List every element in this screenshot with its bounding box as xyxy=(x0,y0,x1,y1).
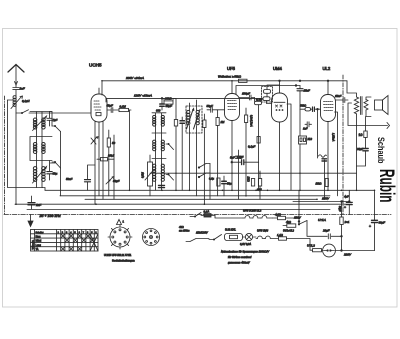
heater coil UCH5 xyxy=(253,216,261,218)
node 110V xyxy=(298,221,300,223)
wire oscillator leads xyxy=(152,113,166,191)
tuner coil L4b xyxy=(42,167,46,182)
svg-text:UF5 UM4: UF5 UM4 xyxy=(257,229,269,233)
svg-text:10kΩ: 10kΩ xyxy=(316,183,322,186)
resistor AGC left xyxy=(217,178,220,186)
resistor 410 heater 2 xyxy=(279,237,323,250)
svg-text:0,1µH: 0,1µH xyxy=(22,99,30,103)
svg-text:80µF: 80µF xyxy=(379,221,386,225)
tube socket UCH5 xyxy=(108,225,132,249)
output transformer secondary xyxy=(364,100,368,111)
potentiometer volume 0,5M xyxy=(145,155,155,196)
resistor oscillator grid xyxy=(174,116,177,190)
wire grid leak drop xyxy=(129,110,131,190)
svg-text:1MΩ: 1MΩ xyxy=(247,177,250,182)
resistor 30k screen feed xyxy=(162,98,176,116)
heater coil UF5 row2 xyxy=(256,236,264,238)
svg-text:Schaub: Schaub xyxy=(376,137,386,164)
wire mains to 80uF xyxy=(336,250,375,252)
svg-text:50µF: 50µF xyxy=(338,206,341,212)
wire UCH5 cathode drops xyxy=(95,121,103,204)
wire UL2 side pin xyxy=(335,112,338,196)
resistor UF5 screen xyxy=(245,108,248,196)
svg-text:UF5: UF5 xyxy=(227,66,236,71)
resistor M0,5 xyxy=(97,158,114,161)
resistor magic eye 1 xyxy=(264,90,271,94)
svg-text:UCH5: UCH5 xyxy=(89,63,102,68)
switch band mid S3a xyxy=(198,164,210,169)
svg-text:50nF: 50nF xyxy=(66,177,73,181)
terminal block Kl xyxy=(299,136,307,190)
wire 200V rail xyxy=(102,80,347,82)
main bus B2 xyxy=(60,195,330,197)
resistor AVC mid xyxy=(257,137,260,144)
tone squiggle xyxy=(318,153,327,199)
IF1 coil b xyxy=(194,110,201,130)
svg-text:25µF: 25µF xyxy=(356,147,363,151)
node UL2 top xyxy=(327,80,329,82)
resistor UL2 cathode xyxy=(325,179,328,187)
electrolytic 25uF secondary xyxy=(357,149,369,167)
svg-text:für Ströme maximal: für Ströme maximal xyxy=(228,255,252,259)
node AF xyxy=(317,108,319,110)
svg-text:6,3V 0,3A: 6,3V 0,3A xyxy=(240,243,251,246)
tube UL2 xyxy=(321,81,336,191)
svg-text:50µF: 50µF xyxy=(166,104,173,108)
resistor magic eye 2 xyxy=(263,97,270,101)
svg-text:1M: 1M xyxy=(221,120,226,124)
resistor 50k anode UF5 xyxy=(239,79,248,82)
svg-text:Wellenber. ≥ 50kΩ: Wellenber. ≥ 50kΩ xyxy=(218,75,242,79)
svg-text:Nahentnahme für Spannungen 10: Nahentnahme für Spannungen 1000Ω/V xyxy=(221,250,269,254)
tube UCH5 xyxy=(91,88,107,122)
svg-text:15nF: 15nF xyxy=(304,89,311,93)
oscillator coil L7b xyxy=(161,164,164,181)
wire antenna drop to bus xyxy=(15,113,17,204)
svg-text:UL2: UL2 xyxy=(323,66,331,71)
table X marks row3 xyxy=(65,238,94,242)
wire UCH5 anode to 200V rail xyxy=(101,81,103,95)
svg-text:0,1µF: 0,1µF xyxy=(237,156,244,159)
capacitor 4uF xyxy=(346,190,352,214)
capacitor 80uF xyxy=(372,190,378,250)
svg-text:50pF: 50pF xyxy=(207,104,214,108)
resistor 4k heater xyxy=(283,224,296,227)
wire row2 left end xyxy=(186,239,209,242)
ground arrow chassis xyxy=(28,215,33,227)
wire detector line xyxy=(232,161,259,163)
resistor 10 secondary xyxy=(364,117,367,149)
svg-text:UY1+UL2: UY1+UL2 xyxy=(283,230,295,233)
svg-text:220V: 220V xyxy=(343,253,352,257)
capacitor 15nF detector xyxy=(297,86,303,137)
wire trimmer column xyxy=(50,112,56,166)
capacitor C4 1nF at bus xyxy=(28,196,35,209)
svg-text:±0,3: ±0,3 xyxy=(257,188,262,191)
table X marks row2 xyxy=(61,234,90,238)
svg-text:+: + xyxy=(369,225,371,229)
resistor 50k AF xyxy=(305,108,311,111)
wire tuner to bus jog xyxy=(43,188,46,191)
resistor 410 heater 1 xyxy=(278,216,286,219)
capacitor 100pF coupling xyxy=(239,95,255,100)
svg-text:1nF: 1nF xyxy=(36,203,41,207)
svg-text:1nF: 1nF xyxy=(303,127,308,131)
svg-text:5nF: 5nF xyxy=(230,156,235,160)
wire primary drop xyxy=(356,114,358,190)
svg-text:2×1: 2×1 xyxy=(344,220,350,224)
tuner coil L3b xyxy=(42,142,46,153)
wire tuner leads xyxy=(30,112,52,188)
heater coil UM4 row2 xyxy=(264,236,278,238)
wire magic eye feed xyxy=(267,85,280,104)
heater coil UF5 xyxy=(243,216,253,218)
speaker xyxy=(375,96,389,115)
band switch S1a xyxy=(21,110,36,114)
dashed box magic eye resistors xyxy=(262,87,273,103)
resistor 1M grid leak xyxy=(119,108,131,111)
node 150V/4uF xyxy=(349,201,351,203)
table big X last col xyxy=(90,234,98,251)
svg-text:U.Sk EXL: U.Sk EXL xyxy=(225,229,236,232)
electrolytic 50uF AGC xyxy=(222,176,227,196)
tuner coil L4a xyxy=(33,167,37,182)
tuner coil L3a xyxy=(33,142,37,153)
svg-text:1,1Ω: 1,1Ω xyxy=(277,233,283,237)
oscillator coil L6b xyxy=(161,140,164,151)
svg-text:50µ: 50µ xyxy=(53,172,58,176)
wire heater line 1 xyxy=(215,215,299,218)
resistor 50k mixer xyxy=(107,130,110,196)
resistor 2x1 xyxy=(340,202,343,252)
resistor volume right xyxy=(251,179,254,187)
wire UM4 side pin xyxy=(287,104,291,190)
switch heater row2 xyxy=(209,235,222,241)
capacitor 0,1uF series dark xyxy=(242,160,244,165)
trimmer arrow tuner pair1 xyxy=(33,116,47,131)
svg-text:Mittel: Mittel xyxy=(36,240,42,243)
node antenna return top xyxy=(8,99,14,101)
tube socket UM4 xyxy=(143,229,160,246)
node 2x1 top xyxy=(341,201,343,203)
wire switch drops xyxy=(60,132,62,196)
node anode rail xyxy=(295,85,297,87)
svg-text:600: 600 xyxy=(156,109,161,113)
oscillator coil L6a xyxy=(153,140,156,151)
resistor 10k xyxy=(258,171,261,199)
wire 150V line xyxy=(293,201,349,203)
output transformer core xyxy=(361,97,363,115)
jack chevron xyxy=(387,123,390,129)
table X marks row5 xyxy=(61,247,82,251)
wire left return xyxy=(8,100,43,188)
node UM4 top xyxy=(279,80,281,82)
svg-text:50pF: 50pF xyxy=(107,104,114,108)
svg-text:am 100m: am 100m xyxy=(179,230,189,233)
trimmer osc mixer xyxy=(91,137,98,144)
tube UM4 magic eye xyxy=(272,81,288,191)
wire secondary leads xyxy=(366,97,371,117)
trimmer cathode xyxy=(106,177,114,185)
svg-text:1,15mA: 1,15mA xyxy=(332,133,335,142)
svg-text:110/125V: 110/125V xyxy=(196,231,209,235)
wire IF1 leads xyxy=(190,100,197,196)
svg-text:4µF: 4µF xyxy=(344,195,349,199)
capacitor 20uF series xyxy=(328,234,330,239)
tuner coil L2b xyxy=(42,118,46,129)
output transformer primary xyxy=(354,97,358,114)
resistor UY line xyxy=(313,249,322,252)
svg-text:200V +24mA: 200V +24mA xyxy=(125,76,144,80)
trimmer capacitor C3 xyxy=(47,165,52,180)
resistor 1M UF5 grid xyxy=(216,110,219,196)
trimmer capacitor C2 xyxy=(47,112,52,127)
wire 200V to output transformer xyxy=(347,81,357,97)
dash-dot divider right xyxy=(342,75,344,214)
svg-text:1nF: 1nF xyxy=(20,86,25,90)
capacitor 50nF mixer xyxy=(85,176,91,190)
wire tuner to grid xyxy=(36,103,91,113)
svg-text:Schalter: Schalter xyxy=(36,231,44,234)
tube UF5 xyxy=(225,81,240,191)
main bus B3 xyxy=(85,198,317,200)
main bus B1 xyxy=(45,189,375,191)
tuner coil L2a xyxy=(33,118,37,129)
switch band mid S3b xyxy=(198,173,210,178)
capacitor 50pF grid UCH5 xyxy=(107,108,119,113)
resistor 0,3M coupling xyxy=(255,98,262,191)
svg-text:Rubin: Rubin xyxy=(375,169,398,203)
capacitor 1nF AF xyxy=(305,122,312,127)
node detector line left xyxy=(231,161,233,163)
wire 110V tap xyxy=(298,190,300,224)
wire UCH5 screen to 120V rail xyxy=(106,97,262,99)
node 200V at 15nF xyxy=(299,80,301,82)
switch S2b xyxy=(166,174,174,180)
padder capacitor oscillator xyxy=(159,185,165,190)
svg-text:4kΩ: 4kΩ xyxy=(286,220,291,224)
svg-text:4,1Ω: 4,1Ω xyxy=(275,212,281,216)
capacitor 5nF UF5 cathode xyxy=(236,150,242,199)
capacitor AF coupling dark xyxy=(313,107,315,111)
svg-text:Wellensch.: Wellensch. xyxy=(32,239,34,249)
svg-text:10: 10 xyxy=(359,133,363,137)
svg-text:15nF: 15nF xyxy=(335,94,342,98)
svg-text:Kl.8: Kl.8 xyxy=(308,137,313,141)
oscillator coil L5a xyxy=(153,115,156,126)
table valve switching xyxy=(31,230,99,252)
svg-text:150V: 150V xyxy=(322,197,330,201)
svg-text:UY1,2: UY1,2 xyxy=(307,244,315,248)
svg-text:gemessen 400mV: gemessen 400mV xyxy=(228,261,250,265)
node 120V junction xyxy=(161,98,163,100)
capacitor UL2 cathode dark xyxy=(322,159,327,161)
svg-text:UCH5 UF5 UBL21 UY11: UCH5 UF5 UBL21 UY11 xyxy=(104,254,132,257)
dial lamp box xyxy=(225,234,243,241)
nodes AVC line xyxy=(175,172,329,174)
svg-text:110V: 110V xyxy=(294,216,302,220)
resistor 0,1A heater xyxy=(201,214,215,217)
triangle marker above socket xyxy=(117,220,125,225)
svg-text:TA: TA xyxy=(36,248,39,251)
capacitor 50pF UF5 grid xyxy=(207,107,217,112)
antenna coil L1 (variable) xyxy=(11,95,23,109)
switch S2a xyxy=(166,143,174,149)
switch S1c xyxy=(52,161,61,168)
wire antenna to band switch xyxy=(16,107,22,113)
svg-text:0,2÷0,7mA: 0,2÷0,7mA xyxy=(250,115,253,127)
wire AF drop xyxy=(317,109,319,153)
svg-text:Sockelschaltungen: Sockelschaltungen xyxy=(112,259,135,263)
wire selector to mains xyxy=(307,221,342,237)
svg-text:Kurz: Kurz xyxy=(36,235,42,238)
trimmer arrow tuner pair3 xyxy=(33,167,47,184)
svg-text:UF5 UCH5 UL2: UF5 UCH5 UL2 xyxy=(243,208,262,212)
wire AVC return line xyxy=(150,172,357,174)
svg-text:UM4: UM4 xyxy=(273,66,283,71)
svg-text:100pF: 100pF xyxy=(242,92,250,96)
oscillator coil L5b xyxy=(161,115,164,126)
svg-text:50µ: 50µ xyxy=(227,182,232,186)
svg-text:0,1M: 0,1M xyxy=(120,105,127,109)
svg-text:+: + xyxy=(344,206,346,210)
svg-text:Lang: Lang xyxy=(36,244,42,247)
capacitor oscillator dark xyxy=(180,117,185,190)
heater feed switch xyxy=(190,213,201,218)
svg-text:20µF: 20µF xyxy=(322,229,330,233)
svg-text:50kΩ: 50kΩ xyxy=(300,103,306,107)
svg-text:0,1µ: 0,1µ xyxy=(209,178,214,181)
svg-text:UY1A: UY1A xyxy=(318,218,326,222)
svg-text:7µF: 7µF xyxy=(53,118,58,122)
svg-text:30kΩ: 30kΩ xyxy=(165,96,173,100)
mains plug circle xyxy=(323,244,336,257)
dash-dot frame tuner xyxy=(4,96,6,214)
switch S1b xyxy=(52,125,61,131)
heater coil UL2 xyxy=(261,216,273,218)
wire switch drops mid xyxy=(209,164,211,200)
wire mixer verticals xyxy=(88,135,115,199)
chassis dash-dot line xyxy=(4,214,391,216)
antenna xyxy=(8,65,24,86)
switch voltage selector xyxy=(298,221,307,225)
svg-text:0,5M: 0,5M xyxy=(141,171,145,178)
main bus B5 xyxy=(27,209,330,211)
IF transformer 1 dashed box xyxy=(186,106,202,133)
dial lamp xyxy=(243,233,257,240)
wire UF5 anode rail xyxy=(236,86,300,95)
wire UF5 grid xyxy=(217,109,225,111)
electrolytic 50uF screen xyxy=(160,98,164,110)
svg-text:0,1µF: 0,1µF xyxy=(248,145,255,149)
resistor IF1 damping xyxy=(203,114,206,204)
main bus B4 xyxy=(15,203,352,205)
wire AF line to UL2 grid xyxy=(300,108,321,110)
svg-text:0,1A: 0,1A xyxy=(204,210,210,214)
bus junction dots xyxy=(15,80,375,205)
wire phones line xyxy=(348,103,388,126)
IF1 coil a xyxy=(187,109,194,129)
capacitor 15nF tone UL2 xyxy=(336,98,349,103)
capacitor C-ant 1nF xyxy=(13,85,19,95)
svg-text:120V +13mA: 120V +13mA xyxy=(134,94,152,98)
oscillator coil L7a xyxy=(153,164,156,181)
